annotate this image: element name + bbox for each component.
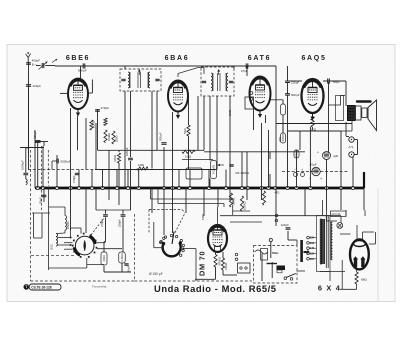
- wire vertical x35 y130-188: [34, 130, 36, 188]
- wire 6AQ5 plate line y81: [289, 80, 302, 82]
- svg-text:Fonorivelat.: Fonorivelat.: [92, 285, 107, 289]
- svg-text:220: 220: [310, 236, 315, 240]
- 6X4 top wires: [356, 225, 358, 240]
- wire vertical x210 y178.5-188: [209, 179, 211, 189]
- mains cap 12KpF: [286, 227, 291, 229]
- transformer bottom wire: [320, 271, 345, 273]
- svg-text:110: 110: [310, 257, 315, 261]
- wire vertical x125 y66-69: [124, 66, 126, 69]
- wire vertical x138.7 y169.5-188: [138, 170, 140, 189]
- svg-text:6.8KΩ: 6.8KΩ: [120, 253, 124, 262]
- AVC dash-dot line: [28, 169, 95, 171]
- dm70 wires: [215, 252, 217, 255]
- wire vertical x230 y188-200: [229, 188, 231, 200]
- svg-text:50KpF: 50KpF: [78, 69, 87, 73]
- svg-text:100KΩ: 100KΩ: [243, 201, 247, 210]
- scan noise: [0, 0, 1, 1]
- pilot lamp box 4V: [331, 211, 347, 217]
- power transformer primary: [320, 219, 325, 264]
- coupling cap 50KpF: [82, 63, 84, 68]
- cap 500KpF: [56, 159, 58, 164]
- wire y141.5 branch: [35, 141, 48, 143]
- svg-text:47KpF: 47KpF: [101, 106, 110, 110]
- bus junction x43: [41, 186, 44, 189]
- electrolytic cap 8uF: [323, 152, 331, 160]
- svg-text:6BE6: 6BE6: [66, 55, 90, 62]
- wire vertical x265.5 y115-123: [265, 115, 267, 123]
- svg-text:20KΩ: 20KΩ: [92, 120, 96, 128]
- antenna symbol: [27, 58, 29, 63]
- transformer top wires: [322, 200, 324, 216]
- cap 270pF rail: [75, 172, 79, 174]
- resistor 20KO: [90, 120, 93, 130]
- svg-text:6 X 4: 6 X 4: [318, 284, 341, 293]
- svg-text:47Ω: 47Ω: [275, 191, 280, 195]
- cap 22KpF: [26, 84, 31, 86]
- wire 3K to electro: [312, 127, 314, 130]
- wire vertical x328.5 y82-152: [328, 82, 330, 152]
- wire vertical x70.5 y188-230: [70, 188, 72, 230]
- cap det: [229, 164, 233, 166]
- wire vertical x364 y188-210: [363, 188, 365, 210]
- antenna coil squiggle: [26, 179, 27, 182]
- cap 50KpF vert: [161, 142, 166, 144]
- wire vertical x209 y169.5-188: [208, 170, 210, 189]
- wire vertical x77.5 y116-150.3: [77, 116, 79, 150]
- wire vertical x70.5 y108-188: [70, 108, 72, 188]
- stamp box: [24, 284, 30, 290]
- mains dashed box: [254, 246, 298, 283]
- wire vertical x287.5 y95.4-188: [287, 95, 289, 188]
- heater line: [220, 215, 341, 217]
- svg-text:300pF: 300pF: [33, 131, 37, 139]
- wire vertical x283 y123.5-133: [282, 124, 284, 134]
- 6X4 plates: [354, 259, 357, 268]
- svg-text:6BA6: 6BA6: [165, 55, 190, 62]
- wire vertical x186 y188-213: [185, 188, 187, 213]
- wire vertical x157 y91-150.3: [156, 91, 158, 150]
- tuning capacitor brush 1: [91, 236, 96, 243]
- voltage selector bar: [300, 240, 303, 262]
- antenna coil wire: [25, 148, 27, 173]
- resistor 470R: [117, 153, 120, 163]
- wire dm top right: [232, 205, 234, 215]
- transformer taps: [307, 236, 310, 239]
- svg-text:27pF: 27pF: [241, 69, 248, 73]
- tone box: [186, 168, 202, 179]
- bus junction x242: [240, 186, 243, 189]
- wire vertical x276 y66-188: [275, 66, 277, 188]
- wire vertical x242 y152-188: [241, 152, 243, 188]
- magic eye tube DM70: [208, 225, 227, 252]
- svg-text:A.S.: A.S.: [349, 145, 355, 149]
- svg-text:0.5MΩ: 0.5MΩ: [211, 164, 215, 174]
- resistor 22KO dm: [221, 258, 224, 270]
- transformer wires: [351, 120, 353, 131]
- resistor 470KO dm: [214, 255, 217, 268]
- wire vertical x234 y66-69: [233, 66, 235, 69]
- svg-text:50Hz: 50Hz: [272, 251, 279, 255]
- wire top RF line y66: [55, 65, 276, 67]
- svg-text:68Ω: 68Ω: [361, 278, 367, 282]
- volume pot 0.5MO: [211, 161, 217, 179]
- IF T2 tuning caps: [202, 80, 206, 82]
- bus junction x341: [339, 186, 342, 189]
- cap 220pF: [285, 80, 290, 82]
- bus junction x310.4: [309, 186, 312, 189]
- IF T2 arrow: [218, 70, 220, 75]
- resistor 6.8KO bottom: [119, 252, 126, 263]
- svg-text:50pF: 50pF: [39, 197, 43, 204]
- svg-text:DM 70: DM 70: [198, 251, 207, 276]
- electrolytic cap 30uF: [312, 167, 320, 175]
- bus junction x287.5: [286, 186, 289, 189]
- svg-text:4V-0,3A: 4V-0,3A: [332, 213, 341, 216]
- IF T2 primary winding: [211, 73, 213, 77]
- 6X4 right wire: [369, 243, 376, 245]
- resistor 3KO: [311, 117, 314, 127]
- wire vertical x198 y96-150.3: [197, 96, 199, 150]
- svg-text:500KpF: 500KpF: [61, 160, 71, 164]
- wire vertical x97.5 y109-150.3: [97, 109, 99, 150]
- svg-text:−: −: [294, 168, 296, 172]
- resistor 47KO a: [281, 133, 286, 143]
- cap 47KpF: [95, 109, 100, 111]
- svg-text:6AT6: 6AT6: [248, 55, 271, 62]
- wire vertical x109 y188-200: [108, 188, 110, 200]
- osc dash link: [31, 255, 74, 257]
- mains inner rect: [261, 249, 268, 261]
- svg-text:22KΩ: 22KΩ: [232, 198, 236, 205]
- wire vertical x218 y188-207: [217, 188, 219, 207]
- wire vertical x96 y123-169.5: [95, 123, 97, 170]
- osc coil box dashed: [41, 146, 43, 210]
- svg-text:140: 140: [310, 246, 315, 250]
- bus junction x138.7: [137, 186, 140, 189]
- wire vertical x152 y188-213: [151, 188, 153, 213]
- wire vertical x276 y188-215: [275, 188, 277, 215]
- dm70 terminals: [235, 253, 238, 256]
- svg-text:MF 100KΩ: MF 100KΩ: [236, 171, 249, 175]
- svg-text:10KpF: 10KpF: [125, 147, 129, 156]
- tuning cap contact dots: [73, 240, 75, 242]
- wire vertical x37.7 y143-188: [37, 143, 39, 188]
- wire rail y169.5: [95, 169, 217, 171]
- wire vertical x247 y152-188: [246, 152, 248, 188]
- wire vertical x326.5 y159-188: [326, 159, 328, 188]
- wire vertical x119 y188-205: [118, 188, 120, 205]
- cap 5KpF: [327, 78, 329, 83]
- pentagrid tube V1 6BE6: [68, 79, 88, 109]
- wire vertical x92 y169.5-188: [91, 170, 93, 189]
- resistor 0.5MO: [104, 130, 107, 143]
- bus junction x128: [126, 186, 129, 189]
- bus junction x79: [77, 186, 80, 189]
- AS jack 1: [349, 137, 354, 142]
- dm70 inner rect: [215, 247, 221, 252]
- resistor pill 283: [281, 104, 286, 115]
- wire vertical x353 y157-188: [352, 157, 354, 188]
- wire y222 seg: [230, 221, 262, 223]
- cap 27pF: [245, 63, 247, 68]
- resistor 1MO bottom: [101, 252, 107, 265]
- wire right y123.5: [276, 123, 352, 125]
- tuning capacitor ring: [75, 236, 94, 255]
- wire vertical x28.5 y62-169.5: [28, 62, 30, 170]
- bus junction x164: [162, 186, 165, 189]
- wire tuning top: [71, 227, 82, 229]
- IF T1 arrow: [138, 70, 140, 75]
- svg-text:47KΩ: 47KΩ: [294, 149, 298, 157]
- IF T2 core: [217, 73, 219, 91]
- bus junction x326.5: [325, 186, 328, 189]
- rectifier tube 6X4: [350, 239, 369, 269]
- svg-text:200Ω: 200Ω: [114, 136, 118, 143]
- transformer core: [325, 216, 327, 268]
- wire vertical x86 y188-233: [85, 188, 87, 233]
- svg-text:CS.TE 26-128: CS.TE 26-128: [31, 286, 51, 290]
- tone network box: [336, 96, 344, 121]
- tuning dashed pointer: [91, 218, 104, 235]
- wire vertical x79 y169.5-188: [78, 170, 80, 189]
- wire vertical x204 y96-150.3: [203, 96, 205, 150]
- wire vertical x261.5 y188-200: [261, 188, 263, 200]
- cap 1KpF: [124, 263, 128, 265]
- diode box 6AT6: [245, 97, 254, 109]
- cap 250pF bottom: [121, 214, 126, 216]
- bus junction x275.5: [274, 186, 277, 189]
- wire vertical x253.5 y109-130: [253, 109, 255, 130]
- mains switch lever: [284, 277, 287, 280]
- svg-text:125: 125: [310, 252, 315, 256]
- wire vertical x179 y169.5-188: [178, 170, 180, 189]
- mains fuse dark: [277, 266, 286, 271]
- wire vertical x130.5 y161-188: [130, 161, 132, 188]
- bus junction x92: [90, 186, 93, 189]
- wire vertical x261.5 y123-188: [261, 123, 263, 188]
- wire vertical x164 y147-188: [163, 147, 165, 188]
- svg-text:47Ω: 47Ω: [278, 137, 282, 142]
- cap 10KpF: [128, 157, 133, 159]
- svg-text:22KpF: 22KpF: [33, 84, 42, 88]
- wire vertical x310.4 y127-188: [309, 127, 311, 188]
- output transformer core box: [356, 106, 362, 120]
- wire 6AT6 plate: [271, 99, 284, 101]
- wire vertical x247 y188-200: [246, 188, 248, 200]
- IF T1 tuning caps: [121, 78, 125, 80]
- wire lamp: [327, 220, 338, 222]
- svg-text:PADD.: PADD.: [66, 221, 70, 229]
- wave switch end blobs: [162, 242, 165, 245]
- wire vertical x119 y150.3-152: [118, 150, 120, 152]
- trimmer capacitor: [41, 63, 43, 68]
- 6BE6 grid side wires: [60, 92, 68, 94]
- cap 270pF bottom: [103, 214, 108, 216]
- wire vertical x44 y141.5-146: [43, 142, 45, 147]
- oscillator coil: [56, 234, 58, 237]
- tuning capacitor vane: [84, 240, 86, 251]
- osc wires: [49, 206, 65, 208]
- svg-text:0.5MΩ: 0.5MΩ: [107, 133, 111, 141]
- power transformer secondary: [331, 222, 332, 225]
- wire 6BA6 top link: [178, 68, 204, 78]
- svg-text:Unda Radio - Mod. R65/5: Unda Radio - Mod. R65/5: [154, 283, 277, 294]
- cap 50K det: [285, 93, 290, 95]
- pilot lamp: [337, 223, 343, 229]
- wire vertical x341 y131-210: [340, 131, 342, 210]
- svg-text:1MΩ: 1MΩ: [228, 110, 232, 116]
- svg-text:160: 160: [310, 241, 315, 245]
- bus junction x296.5: [295, 186, 298, 189]
- bus junction x179: [177, 186, 180, 189]
- resistor 5KO: [187, 125, 190, 136]
- osc bottom wire: [49, 267, 87, 269]
- wire tuning bottom: [87, 264, 104, 266]
- phono jacks: [275, 214, 278, 217]
- wire vertical x287.5 y82.8-93.4: [287, 83, 289, 94]
- wire y199: [151, 198, 234, 200]
- svg-text:250pF: 250pF: [117, 219, 121, 227]
- output tube V4 6AQ5: [302, 79, 324, 113]
- wire mid y210: [96, 209, 131, 211]
- wave switch shaft: [172, 232, 174, 245]
- wire vertical x57 y155-188: [56, 155, 58, 188]
- AS jack 2: [349, 152, 354, 157]
- wire vertical x96 y188-210: [95, 188, 97, 210]
- output transformer winding: [348, 106, 356, 121]
- IF transformer T2 dashed box: [201, 67, 234, 96]
- wire vertical x172.5 y188-233: [172, 188, 174, 233]
- mech link dashes: [148, 210, 150, 234]
- svg-text:5KΩ: 5KΩ: [183, 127, 187, 134]
- IF T1 primary winding: [128, 72, 130, 75]
- svg-text:470Ω: 470Ω: [113, 154, 117, 162]
- padder coil: [65, 216, 66, 220]
- bus junction x37.7: [36, 186, 39, 189]
- wire vertical x326.5 y188-210: [326, 188, 328, 210]
- wire vertical x119 y163-188: [118, 163, 120, 188]
- svg-text:220pF: 220pF: [291, 81, 299, 85]
- svg-text:OSC.: OSC.: [50, 243, 54, 250]
- wire vertical x130.5 y91-157: [130, 91, 132, 157]
- svg-text:5KpF: 5KpF: [333, 80, 340, 84]
- svg-text:1MΩ: 1MΩ: [138, 163, 145, 167]
- resistor small 105: [104, 118, 107, 126]
- bus junction x117: [115, 186, 118, 189]
- bus junction x226: [224, 186, 227, 189]
- wire vertical x287.5 y66-80.8: [287, 66, 289, 81]
- detector tube V3 6AT6: [250, 77, 271, 111]
- wire vertical x172.5 y112-188: [172, 112, 174, 188]
- resistor 68 ohm: [355, 272, 358, 284]
- svg-text:100KpF: 100KpF: [21, 160, 25, 170]
- wire vertical x204 y188-216: [203, 188, 205, 216]
- wire mid y150: [98, 149, 205, 151]
- wire vertical x109 y150.3-188: [108, 150, 110, 188]
- voice coil box: [362, 108, 367, 118]
- wire vertical x283 y99.8-104: [282, 100, 284, 104]
- svg-text:1MΩ: 1MΩ: [185, 155, 192, 159]
- wire vertical x164 y188-235: [163, 188, 165, 235]
- resistor 200R: [112, 131, 115, 144]
- AS wires: [346, 136, 349, 138]
- wire vertical x130.5 y188-210: [130, 188, 132, 210]
- cap 50pF below bus: [42, 194, 47, 196]
- speaker magnet bar: [357, 100, 371, 102]
- wire vertical x117 y169.5-188: [116, 170, 118, 189]
- resistor 22K mid: [229, 193, 232, 207]
- output terminals - +: [294, 173, 298, 177]
- 6X4 inner anode cup: [353, 241, 365, 247]
- wire vertical x270 y174-188: [269, 174, 271, 188]
- wire vertical x247 y66-76: [246, 66, 248, 76]
- wire vertical x270 y151.8-159: [269, 152, 271, 159]
- wire antenna coil: [28, 88, 30, 155]
- wire y147.5 left: [20, 147, 44, 149]
- bus junction x57: [55, 186, 58, 189]
- wires bottom mid: [105, 210, 107, 214]
- resistor 47KO b: [294, 150, 299, 158]
- trimmer arrow 2: [52, 60, 57, 63]
- mains small rect: [277, 270, 282, 273]
- wire y203.5: [158, 203, 224, 205]
- resistor mid 264: [262, 191, 265, 205]
- scan fold line: [377, 188, 379, 301]
- wire vertical x43 y146-188: [42, 146, 44, 188]
- bus junction x172.5: [171, 186, 174, 189]
- bottom right wires: [356, 270, 358, 273]
- phono socket box: [238, 263, 251, 273]
- wire vertical x283 y115-133: [282, 115, 284, 133]
- bus junction x353: [351, 186, 354, 189]
- wire vertical x80.5 y66-78.8: [80, 66, 82, 79]
- transformer outline: [317, 216, 331, 272]
- dashed tuning box: [30, 150, 32, 281]
- wire mid y151.8: [204, 151, 305, 153]
- wire vertical x190 y169.5-188: [189, 170, 191, 189]
- IF transformer T1 dashed box: [120, 69, 161, 91]
- wire vertical x296.5 y150-188: [296, 150, 298, 188]
- wire vertical x125 y91-188: [124, 91, 126, 188]
- resistor 1MO right: [182, 150, 195, 153]
- antenna coil cap: [23, 172, 28, 174]
- wave switch arc: [163, 244, 181, 257]
- svg-text:22KΩ: 22KΩ: [224, 262, 228, 270]
- IF amp tube V2 6BA6: [168, 81, 188, 112]
- mains S wire: [255, 250, 268, 254]
- svg-text:Ø 150 pF: Ø 150 pF: [149, 272, 163, 276]
- wire vertical x188.5 y96-125: [188, 96, 190, 125]
- pot wiper arrow: [219, 164, 224, 166]
- svg-text:3KΩ: 3KΩ: [310, 128, 317, 132]
- bus junction x268.5: [267, 186, 270, 189]
- mains terminal: [269, 238, 272, 241]
- bus junction x102.5: [101, 186, 104, 189]
- wire vertical x86 y118-169.5: [85, 118, 87, 170]
- resistor 100K mid: [240, 196, 243, 211]
- wire dm70 top: [217, 207, 219, 225]
- bus junction x70.5: [69, 186, 72, 189]
- wire vertical x346 y122-136: [345, 122, 347, 136]
- wire left y213: [32, 212, 50, 214]
- wire vertical x217 y96-169.5: [216, 96, 218, 170]
- wire vertical x102.5 y169.5-188: [102, 170, 104, 189]
- wire vertical x188.5 y136-169.5: [188, 136, 190, 170]
- bus junction x209: [207, 186, 210, 189]
- wire vertical x128 y169.5-188: [127, 170, 129, 189]
- mains wires: [261, 254, 263, 282]
- svg-text:50KpF: 50KpF: [159, 132, 163, 141]
